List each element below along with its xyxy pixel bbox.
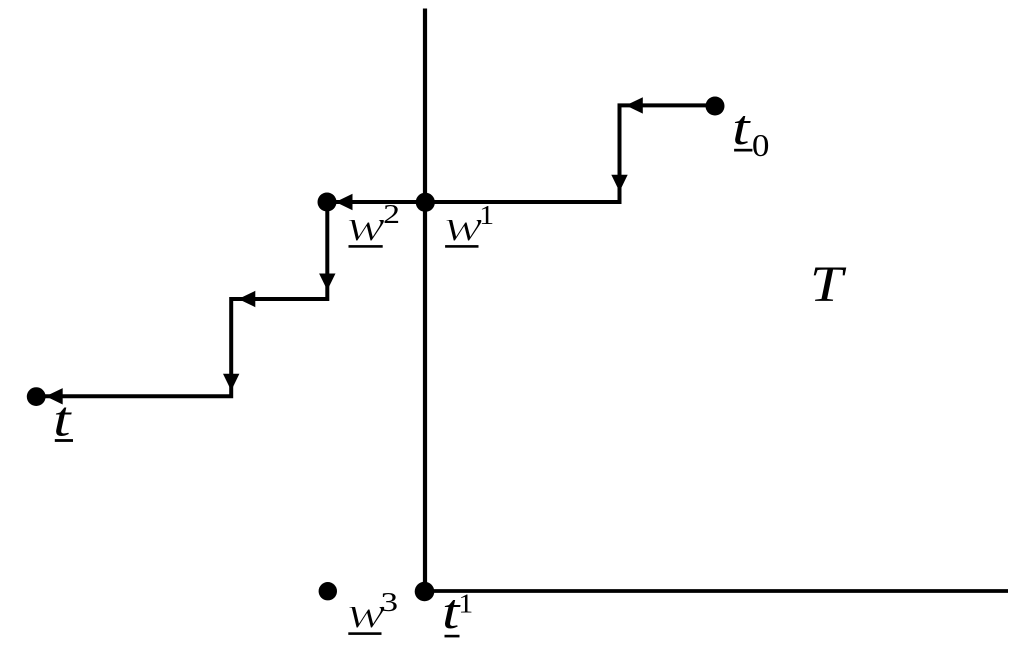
svg-text:w: w [444,201,482,251]
vertical axis line [423,9,427,592]
staircase path polyline [36,105,715,396]
svg-text:T: T [810,256,846,312]
arrowhead segment A left [626,97,643,113]
arrowhead segment G left [46,388,63,404]
arrowhead segment F down [223,374,239,391]
label w1 [444,201,494,251]
svg-text:w: w [347,588,385,638]
svg-text:1: 1 [479,201,494,230]
point t dot [27,387,46,406]
label t0 [732,101,769,164]
point w1 dot [416,193,435,212]
point t0 dot [706,97,725,116]
horizontal axis line from t1 [425,589,1008,593]
svg-text:1: 1 [458,589,473,618]
label t [53,392,73,447]
svg-text:t: t [732,101,751,156]
arrowhead segment E left [238,291,255,307]
label w3 [347,587,398,638]
svg-text:0: 0 [752,128,770,163]
svg-text:t: t [53,392,72,447]
point w2 dot [318,193,337,212]
svg-text:w: w [347,201,385,251]
arrowhead segment D down [319,274,335,291]
label t1 [442,585,473,640]
label T region [810,256,846,312]
svg-text:3: 3 [381,587,399,617]
label w2 [347,199,400,251]
arrowhead segment C left [336,194,353,210]
point t1 dot [415,582,435,602]
arrowhead segment B down [611,175,627,192]
point w3 dot [319,582,337,600]
svg-text:2: 2 [383,199,400,229]
